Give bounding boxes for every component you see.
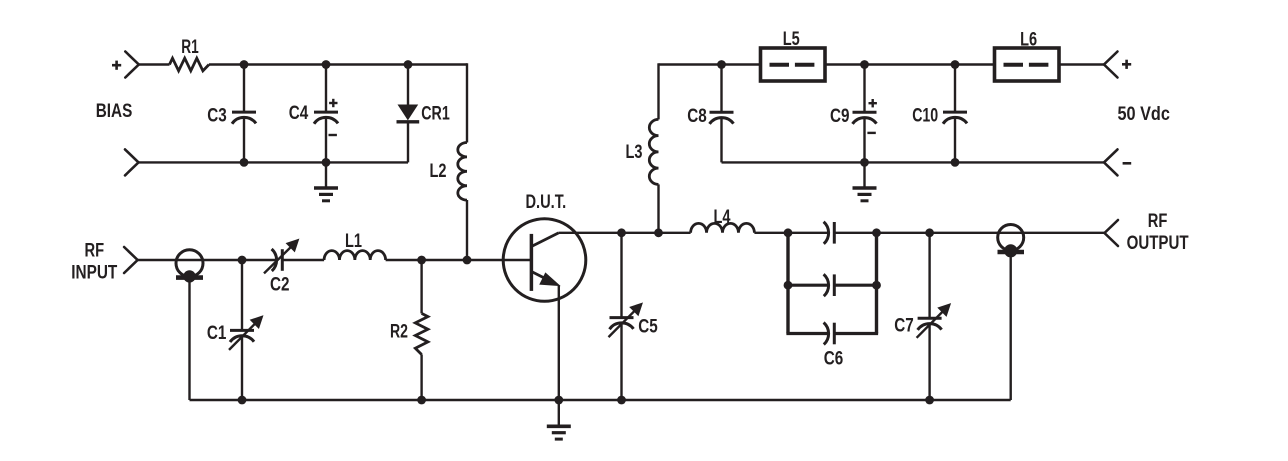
DC + chevron — [1104, 52, 1118, 78]
svg-text:C5: C5 — [638, 316, 658, 337]
wire C6 bottom row left — [786, 332, 829, 335]
wire bias top rail left — [139, 63, 170, 65]
wire C7 bottom lead — [928, 324, 930, 400]
svg-text:OUTPUT: OUTPUT — [1127, 233, 1189, 254]
svg-text:C6: C6 — [824, 348, 844, 369]
capacitor C10 — [943, 112, 967, 124]
wire C9 top lead — [863, 65, 865, 113]
node C5 bottom — [617, 396, 626, 405]
bias - input chevron — [125, 149, 139, 175]
transistor Q1 body circle — [503, 219, 586, 302]
label + (bias) — [112, 61, 121, 70]
output connector dot — [1004, 244, 1017, 257]
wire CR1 anode lead — [407, 65, 409, 106]
svg-text:BIAS: BIAS — [96, 101, 133, 122]
wire DC bottom rail — [722, 161, 1105, 163]
wire C3 bottom lead — [243, 118, 245, 163]
label BIAS — [96, 101, 133, 122]
svg-text:RF: RF — [85, 240, 105, 261]
wire output connector stem — [1010, 253, 1012, 400]
node C10 top — [951, 60, 960, 69]
RF input chevron — [124, 247, 138, 273]
C6 right bus — [875, 233, 878, 334]
capacitor C7 (variable) — [917, 304, 951, 338]
node L2 bottom — [463, 256, 472, 265]
wire C6 bottom row right — [834, 332, 878, 335]
label C2 — [270, 275, 290, 296]
node C6 left mid — [784, 281, 793, 290]
node C3 bottom — [240, 158, 249, 167]
svg-text:C8: C8 — [687, 106, 707, 127]
transistor Q1 base bar — [530, 234, 534, 291]
transistor Q1 collector — [531, 233, 558, 247]
svg-text:C7: C7 — [894, 315, 914, 336]
node C1 bottom — [238, 396, 247, 405]
node C4 bottom — [322, 158, 331, 167]
wire L3 top lead — [657, 63, 659, 119]
svg-text:R1: R1 — [181, 37, 199, 58]
output connector circle — [998, 225, 1024, 251]
resistor R2 — [415, 313, 428, 354]
node R2 top — [417, 256, 426, 265]
label OUTPUT — [1127, 233, 1189, 254]
label L4 — [714, 207, 731, 228]
wire input line to C2 — [138, 259, 278, 261]
svg-text:RF: RF — [1148, 211, 1168, 232]
node C6 right top — [872, 228, 881, 237]
output connector bar — [998, 250, 1025, 255]
node C3 top — [240, 60, 249, 69]
capacitor C1 (variable) — [229, 316, 263, 350]
C6 left bus — [786, 233, 789, 334]
node C4 top — [322, 60, 331, 69]
svg-text:50 Vdc: 50 Vdc — [1118, 104, 1171, 125]
label + (C4) — [329, 99, 337, 107]
svg-text:R2: R2 — [390, 322, 408, 343]
label + (50Vdc) — [1122, 60, 1131, 69]
svg-text:L4: L4 — [714, 207, 731, 228]
node L3 bottom — [654, 228, 663, 237]
bias + input chevron — [125, 52, 139, 78]
label C8 — [687, 106, 707, 127]
label R1 — [181, 37, 199, 58]
input connector bar — [176, 275, 203, 280]
ferrite choke L5 — [761, 48, 826, 81]
node R2 bottom — [417, 396, 426, 405]
ferrite choke L6 — [995, 48, 1060, 81]
node emitter-ground — [554, 396, 563, 405]
wire C4 bottom lead — [325, 118, 327, 163]
wire C8 bottom lead — [720, 118, 722, 163]
svg-text:INPUT: INPUT — [71, 263, 117, 284]
capacitor C6c — [824, 323, 835, 345]
svg-text:C9: C9 — [830, 106, 850, 127]
node CR1 top — [404, 60, 413, 69]
wire C5 bottom lead — [620, 323, 622, 400]
capacitor C8 — [710, 112, 734, 124]
svg-text:L3: L3 — [626, 142, 643, 163]
node C10 bottom — [951, 158, 960, 167]
label + (C9) — [869, 99, 877, 107]
wire ground rail — [190, 399, 1011, 401]
node C7 bottom — [925, 396, 934, 405]
label D.U.T. — [525, 192, 566, 213]
wire CR1 cathode lead — [407, 122, 409, 163]
svg-text:L1: L1 — [345, 231, 362, 252]
inductor L1 — [324, 251, 386, 260]
wire DC rail L3 to L5 — [659, 63, 761, 65]
label C10 — [912, 106, 938, 127]
wire L1 to transistor base — [386, 259, 532, 261]
wire C3 top lead — [243, 65, 245, 113]
capacitor C2 (variable) — [264, 239, 299, 273]
ground below transistor — [547, 400, 571, 439]
wire C4 top lead — [325, 65, 327, 113]
label L5 — [783, 29, 800, 50]
ground below C9 — [853, 162, 877, 200]
svg-text:C2: C2 — [270, 275, 290, 296]
node C1 top — [238, 256, 247, 265]
svg-text:L2: L2 — [430, 161, 447, 182]
wire L2 top lead — [466, 63, 468, 142]
node C5 top — [617, 228, 626, 237]
node C6 right mid — [872, 281, 881, 290]
capacitor C4 — [314, 112, 338, 124]
wire bias bottom rail — [139, 161, 409, 163]
label - (50Vdc) — [1123, 162, 1132, 165]
label C6 — [824, 348, 844, 369]
wire C10 top lead — [954, 65, 956, 113]
capacitor C9 — [853, 112, 877, 124]
input connector dot — [183, 270, 195, 282]
transistor Q1 emitter — [531, 272, 559, 286]
node C9 top — [860, 60, 869, 69]
svg-text:L6: L6 — [1020, 29, 1037, 50]
wire emitter lead — [558, 285, 560, 400]
diode CR1 — [397, 105, 420, 122]
node C6 left top — [784, 228, 793, 237]
wire L2 bottom lead — [466, 200, 468, 260]
wire C6 top right — [834, 232, 1104, 234]
wire C1 top lead — [241, 260, 243, 330]
svg-text:C10: C10 — [912, 106, 938, 127]
ground below C4 — [314, 162, 338, 200]
inductor L4 — [691, 223, 755, 232]
resistor R1 — [170, 58, 210, 71]
capacitor C6b — [824, 274, 835, 296]
wire collector to L4 — [559, 232, 691, 234]
label C4 — [289, 103, 309, 124]
svg-text:C3: C3 — [207, 106, 227, 127]
node C7 top — [925, 228, 934, 237]
wire C2 to L1 — [282, 259, 324, 261]
label - (C9) — [867, 132, 875, 134]
label C7 — [894, 315, 914, 336]
wire bias top rail — [209, 63, 467, 65]
label R2 — [390, 322, 408, 343]
label RF (output) — [1148, 211, 1168, 232]
label L2 — [430, 161, 447, 182]
label C5 — [638, 316, 658, 337]
wire C10 bottom lead — [954, 118, 956, 163]
label - (C4) — [329, 134, 337, 136]
label INPUT — [71, 263, 117, 284]
DC - chevron — [1104, 149, 1118, 175]
inductor L2 — [458, 143, 467, 201]
label CR1 — [421, 104, 450, 125]
input connector circle — [176, 250, 203, 277]
wire C6 middle row right — [834, 284, 878, 287]
capacitor C3 — [232, 112, 256, 124]
svg-text:C1: C1 — [207, 323, 227, 344]
RF output chevron — [1105, 220, 1119, 246]
label RF (input) — [85, 240, 105, 261]
label C3 — [207, 106, 227, 127]
svg-text:CR1: CR1 — [421, 104, 450, 125]
label 50 Vdc — [1118, 104, 1171, 125]
svg-text:D.U.T.: D.U.T. — [525, 192, 566, 213]
wire L4 to C6 — [754, 232, 829, 234]
wire C9 bottom lead — [863, 118, 865, 163]
wire C8 top lead — [720, 65, 722, 113]
wire DC rail L6 to chevron — [1059, 63, 1104, 65]
wire DC rail L5 to L6 — [825, 63, 995, 65]
label C1 — [207, 323, 227, 344]
inductor L3 — [649, 119, 658, 184]
wire R2 bottom lead — [420, 354, 422, 400]
wire input connector stem — [188, 279, 190, 400]
svg-text:C4: C4 — [289, 103, 309, 124]
capacitor C6a — [824, 222, 835, 244]
wire C7 top lead — [928, 233, 930, 318]
wire L3 bottom lead — [657, 184, 659, 232]
wire C5 top lead — [620, 233, 622, 318]
svg-text:L5: L5 — [783, 29, 800, 50]
label L1 — [345, 231, 362, 252]
node C8 top — [717, 60, 726, 69]
wire C6 middle row left — [786, 284, 829, 287]
capacitor C5 (variable) — [609, 303, 643, 337]
wire R2 top lead — [420, 260, 422, 313]
node C9 bottom — [860, 158, 869, 167]
wire C1 bottom lead — [241, 336, 243, 400]
label C9 — [830, 106, 850, 127]
label L3 — [626, 142, 643, 163]
label L6 — [1020, 29, 1037, 50]
